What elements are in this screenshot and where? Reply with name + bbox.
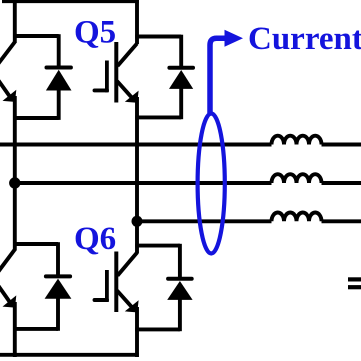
- svg-text:Q6: Q6: [74, 221, 116, 257]
- transistor Q6 collector slant: [118, 253, 138, 276]
- transistor Q5 emitter arrowhead: [125, 91, 139, 103]
- wire left leg vertical upper (collector feed): [13, 0, 17, 43]
- transistor Q5 emitter slant: [117, 81, 134, 100]
- wire Q5 cell top horizontal: [135, 35, 181, 39]
- transistor Q5 gate bar: [105, 61, 109, 93]
- node DC-link equals marks: [348, 279, 361, 287]
- transistor left lower IGBT emitter slant (clipped): [0, 281, 12, 305]
- wire phase line 1 right segment: [322, 143, 361, 147]
- transistor Q6 emitter arrowhead: [125, 300, 139, 312]
- transistor left lower IGBT collector slant (clipped): [0, 250, 15, 277]
- wire current sensor lead (blue): [210, 38, 227, 113]
- current sensor arrowhead (blue): [225, 30, 244, 47]
- diode D5 top lead: [179, 35, 183, 69]
- diode left upper triangle: [46, 70, 72, 91]
- inductor L2: [272, 174, 322, 183]
- wire Q6 cell bottom horizontal: [135, 327, 180, 331]
- diode left upper anti-parallel, top lead: [57, 34, 61, 68]
- wire phase line 2 right segment: [322, 181, 361, 185]
- wire left upper cell bottom horizontal: [13, 116, 59, 120]
- wire left leg vertical middle (emitter to node): [13, 96, 17, 251]
- transistor Q6 gate lead: [95, 298, 108, 302]
- transistor Q6 gate bar: [105, 270, 109, 302]
- node phase-3 junction dot: [132, 216, 143, 227]
- wire mid leg vertical top (Q5 collector feed): [135, 0, 139, 44]
- wire top DC bus: [2, 0, 139, 3]
- diode left upper bottom lead: [57, 90, 61, 120]
- transistor left upper IGBT emitter arrowhead: [3, 90, 17, 102]
- wire mid leg vertical lower (Q6 emitter to bottom bus): [135, 307, 139, 357]
- svg-text:Current: Current: [248, 21, 361, 57]
- wire bottom DC bus: [0, 353, 139, 357]
- transistor Q6 body bar: [114, 252, 118, 313]
- transistor Q6 emitter slant: [117, 291, 134, 310]
- inductor L1: [272, 136, 322, 145]
- diode left lower triangle: [45, 279, 72, 299]
- wire Q6 cell top horizontal: [135, 244, 180, 248]
- diode left lower cathode bar: [46, 274, 70, 278]
- transistor Q5 gate lead: [95, 88, 108, 92]
- transistor Q5 collector slant: [118, 44, 138, 67]
- diode D6 cathode bar: [168, 277, 192, 281]
- wire Q5 cell bottom horizontal: [135, 115, 181, 119]
- wire phase line 3 right segment: [322, 219, 361, 223]
- diode left lower bottom lead: [56, 298, 60, 331]
- svg-text:Q5: Q5: [74, 15, 116, 51]
- diode D5 cathode bar: [169, 66, 193, 70]
- diode D5 bottom lead: [179, 88, 183, 119]
- wire phase line 3 left segment: [137, 219, 272, 223]
- node phase-2 junction dot: [9, 177, 20, 188]
- wire phase line 1 left segment: [0, 143, 272, 147]
- inductor L3: [272, 213, 322, 222]
- diode D6 top lead: [178, 244, 182, 279]
- wire left lower cell top horizontal: [13, 242, 58, 246]
- diode left lower, top lead: [56, 242, 60, 277]
- wire left lower cell bottom horizontal: [13, 327, 58, 331]
- transistor left lower IGBT emitter arrowhead: [3, 295, 17, 307]
- wire mid leg vertical middle (Q5 emitter to node): [135, 97, 139, 254]
- diode left upper cathode bar: [47, 66, 71, 70]
- transistor left upper IGBT collector slant (clipped): [0, 42, 15, 68]
- wire left leg vertical lower (emitter to bottom bus): [13, 302, 17, 357]
- transistor left upper IGBT emitter slant (clipped): [0, 76, 12, 100]
- transistor Q5 body bar: [114, 42, 118, 103]
- diode D6 bottom lead: [178, 299, 182, 331]
- diode D6 triangle: [167, 281, 192, 300]
- diode D5 triangle: [169, 70, 193, 89]
- current sensor ellipse: [198, 114, 225, 254]
- wire left upper cell top horizontal: [13, 34, 59, 38]
- wire phase line 2 left segment: [15, 181, 272, 185]
